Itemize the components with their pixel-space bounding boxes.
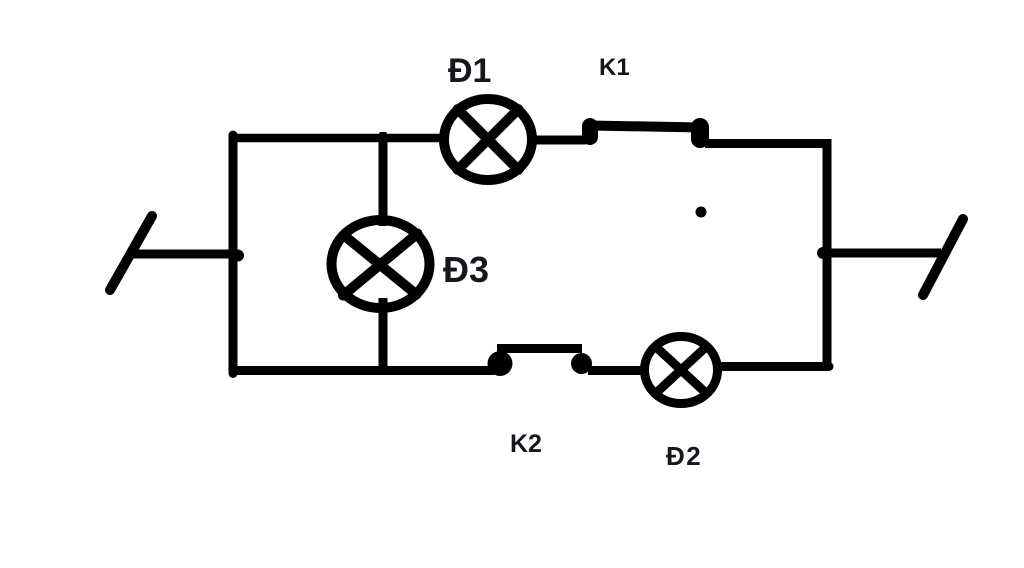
wire: lamp D2 to bottom right corner (722, 362, 829, 371)
terminal T1 left slash (110, 216, 152, 290)
svg-text:K2: K2 (510, 430, 542, 458)
wire: lamp D3 to bottom wire (379, 298, 388, 371)
wire: right terminal lead (823, 249, 941, 258)
wire: right vertical (823, 144, 832, 368)
svg-text:Đ1: Đ1 (448, 52, 491, 90)
lamp D2 (645, 337, 718, 404)
lamp D1 (444, 99, 532, 180)
switch K1 left post (582, 126, 598, 137)
svg-text:Đ2: Đ2 (666, 441, 702, 471)
terminal T2 right slash (923, 219, 963, 295)
wire: K1 to top right corner (705, 139, 832, 148)
switch K2 bar (497, 344, 582, 353)
svg-text:K1: K1 (599, 54, 630, 81)
wire: left terminal lead (135, 250, 237, 259)
node: branch junction nub (380, 132, 387, 140)
wire: branch down to lamp D3 (379, 138, 388, 226)
wire: top horizontal (229, 134, 442, 143)
node: floating dot (696, 207, 707, 218)
switch K1 bar (590, 126, 702, 128)
node: left lead junction blob (232, 250, 244, 262)
wire: left vertical (229, 135, 238, 374)
wire: K2 to lamp D2 (588, 366, 648, 375)
switch K2 left blob (488, 351, 513, 376)
node: right lead junction blob (817, 247, 829, 259)
wire: bottom horizontal (230, 366, 494, 375)
wire: D1 to K1 (531, 136, 586, 145)
svg-text:Đ3: Đ3 (443, 249, 489, 290)
lamp D3 (332, 220, 430, 308)
switch K1 right post (691, 127, 709, 139)
switch K2 right blob (571, 353, 592, 374)
